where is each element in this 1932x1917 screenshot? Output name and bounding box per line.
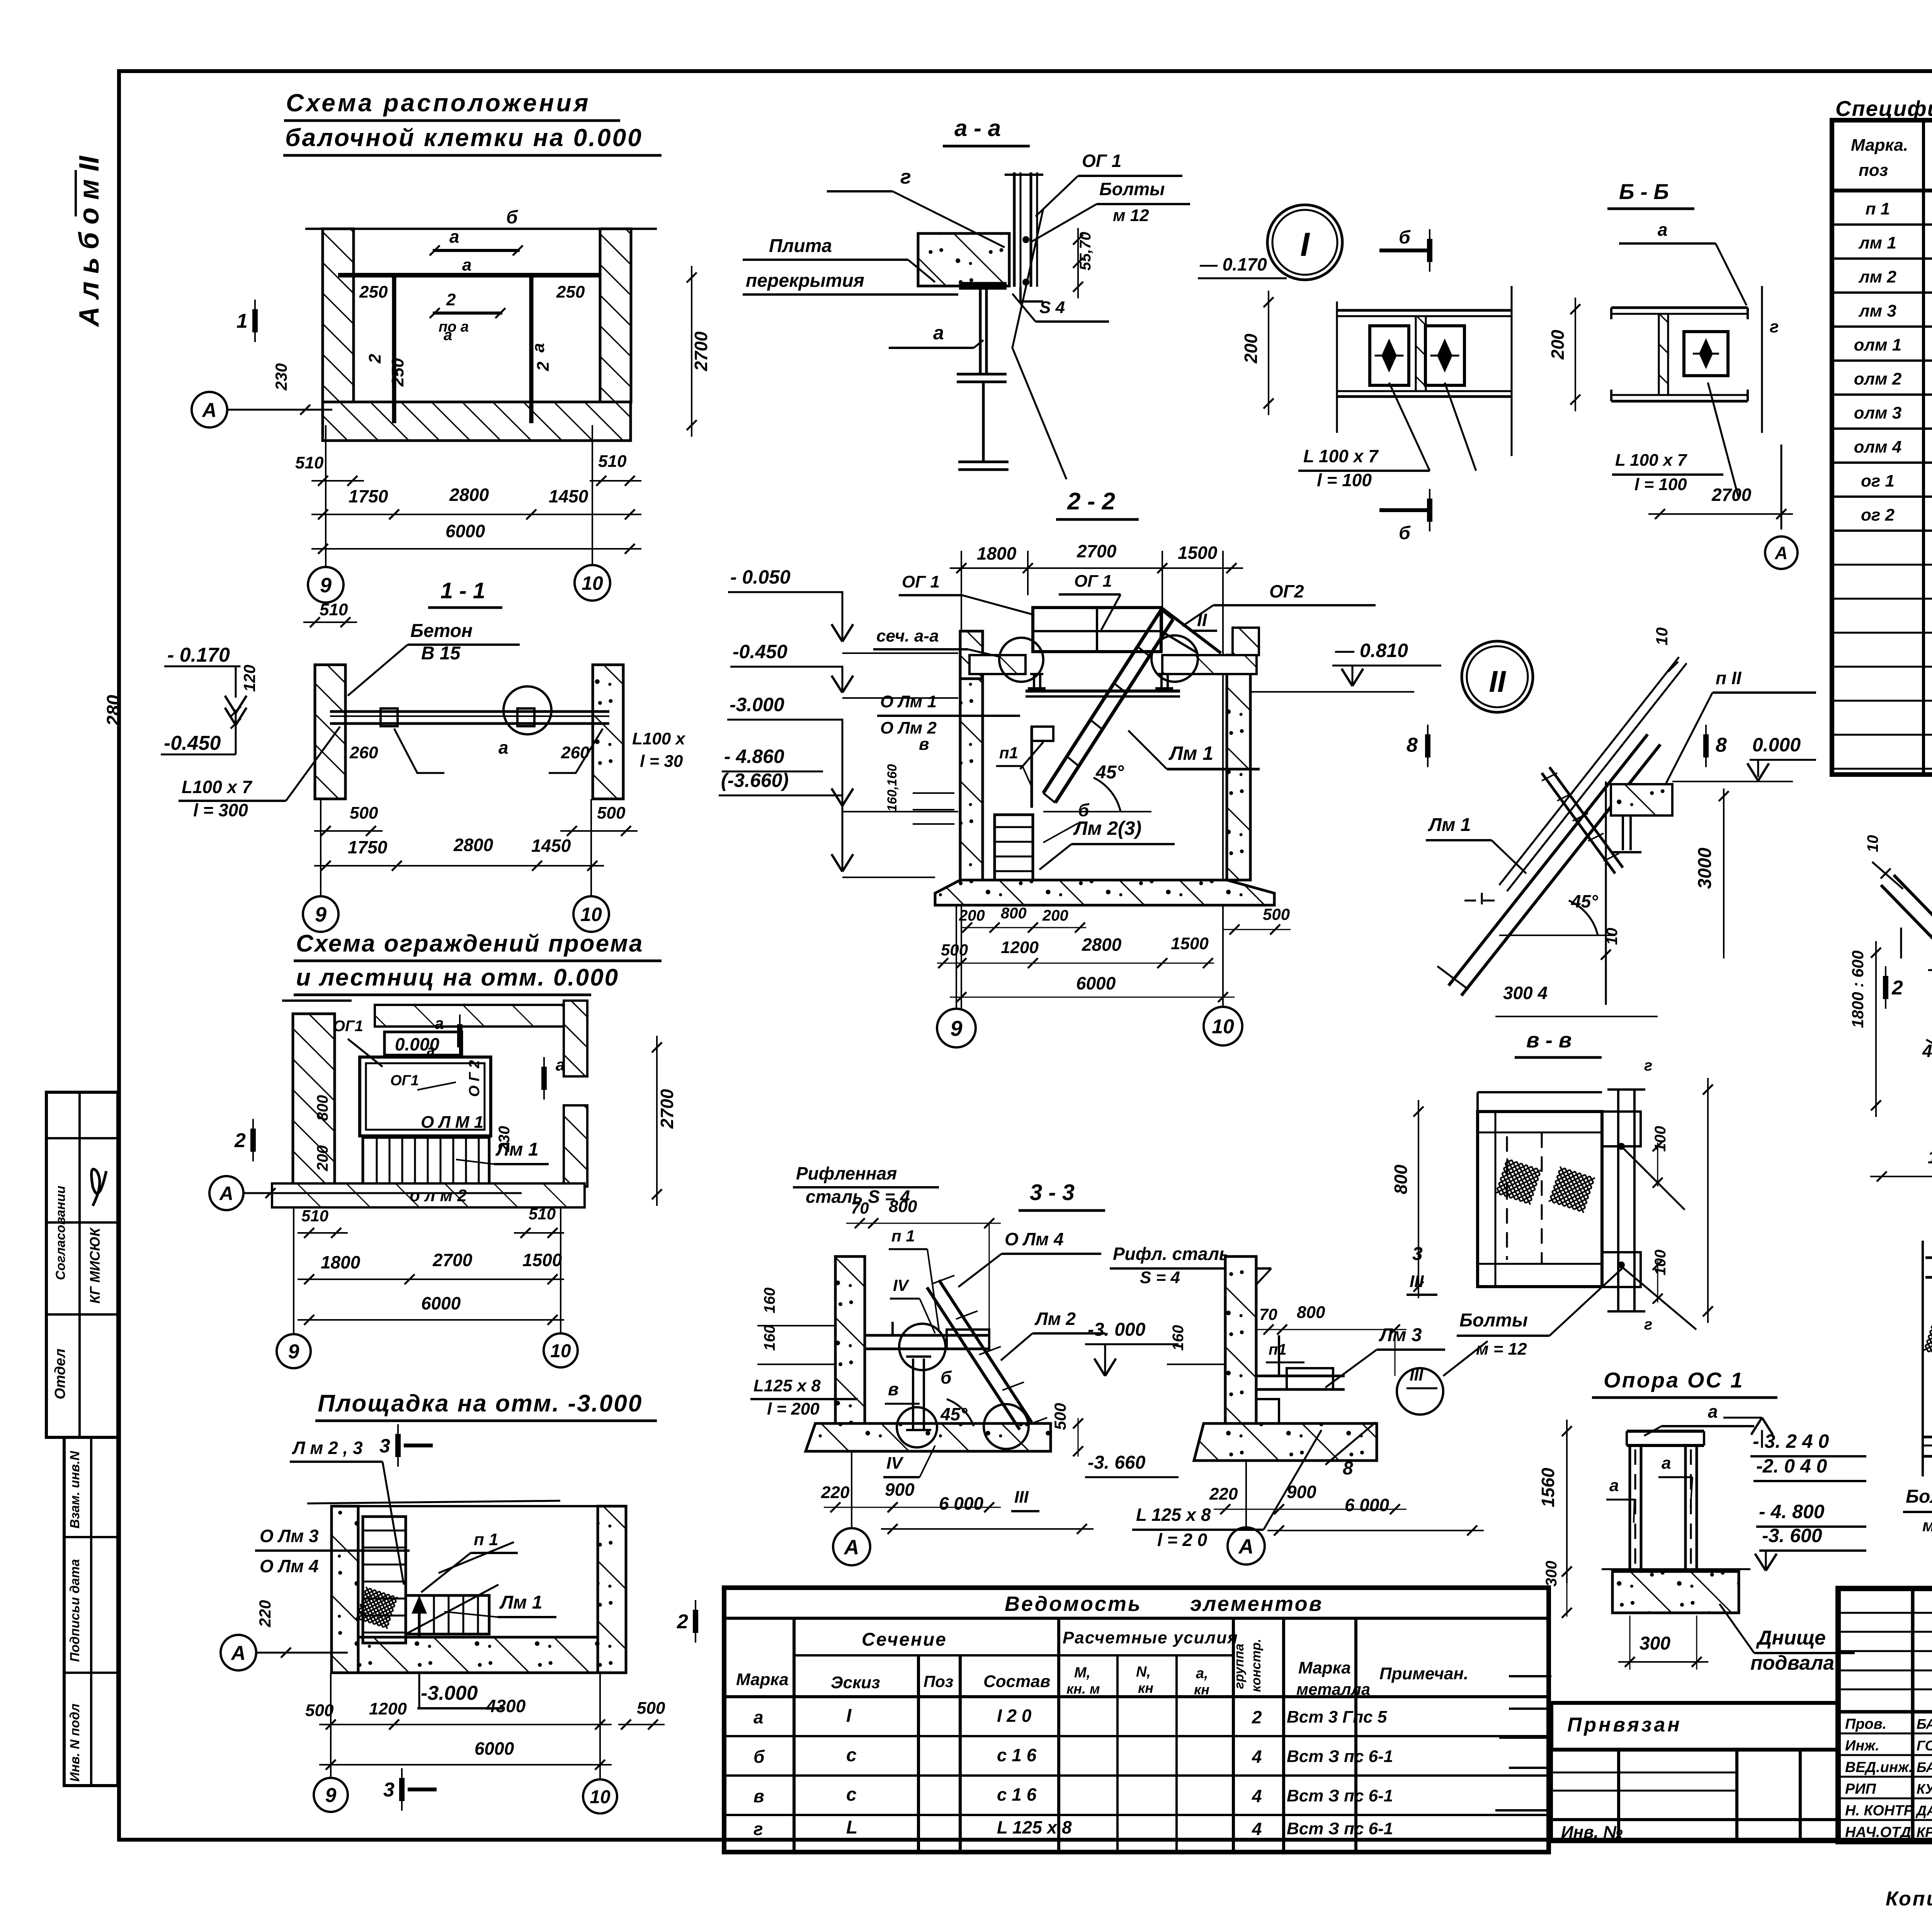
secondary beams 2 [392, 276, 396, 423]
footing 3-3 left [806, 1423, 1051, 1451]
svg-text:- 4. 800: - 4. 800 [1759, 1501, 1825, 1522]
left of privyazan small rows [1509, 1675, 1551, 1677]
svg-text:-3.000: -3.000 [730, 694, 784, 715]
svg-text:510: 510 [529, 1205, 556, 1223]
svg-text:4300: 4300 [486, 1696, 526, 1716]
svg-text:2: 2 [1252, 1707, 1262, 1727]
svg-text:Рифл. сталь: Рифл. сталь [1113, 1244, 1230, 1264]
svg-text:в - в: в - в [1526, 1028, 1571, 1052]
grid circles 2-2 [937, 1009, 976, 1047]
svg-text:1750: 1750 [349, 486, 388, 506]
svg-text:лм 2: лм 2 [1858, 267, 1896, 286]
svg-text:9: 9 [325, 1784, 337, 1807]
ladder at left [363, 1517, 406, 1643]
B-B beam section [1611, 306, 1748, 309]
dims right of railing plan [656, 1036, 658, 1206]
svg-text:2700: 2700 [432, 1250, 473, 1270]
svg-text:Отдел: Отдел [52, 1348, 68, 1399]
svg-text:ОГ 1: ОГ 1 [1074, 572, 1112, 591]
svg-text:1500: 1500 [1171, 934, 1209, 953]
svg-text:а: а [498, 737, 509, 758]
svg-text:олм 2: олм 2 [1854, 369, 1902, 388]
upper post P1 and small platform [1031, 727, 1033, 808]
svg-text:а: а [1658, 220, 1668, 240]
svg-text:Болты: Болты [1459, 1310, 1528, 1331]
svg-text:300 4: 300 4 [1503, 983, 1548, 1003]
svg-text:510: 510 [295, 453, 324, 472]
svg-text:500: 500 [1051, 1403, 1069, 1430]
svg-text:2700: 2700 [1077, 541, 1117, 561]
svg-text:L: L [846, 1817, 857, 1838]
svg-text:а: а [427, 1042, 435, 1059]
svg-text:250: 250 [556, 283, 585, 301]
svg-text:п 1: п 1 [1866, 199, 1890, 218]
svg-text:2: 2 [366, 354, 384, 364]
grid circles bottom platform [314, 1778, 348, 1812]
svg-text:6 000: 6 000 [1345, 1495, 1389, 1515]
svg-text:9: 9 [288, 1341, 299, 1363]
axis A circle [192, 392, 227, 427]
svg-text:500: 500 [350, 804, 378, 822]
svg-text:9: 9 [950, 1016, 962, 1040]
axis A partial [1765, 536, 1798, 569]
dim 200 detail I [1268, 291, 1269, 415]
svg-text:б: б [940, 1367, 952, 1388]
svg-text:п1: п1 [1269, 1341, 1287, 1358]
svg-text:в: в [753, 1786, 764, 1806]
svg-text:1800: 1800 [321, 1252, 361, 1272]
axis circle A 3-3 left [833, 1528, 870, 1565]
svg-text:ог 1: ог 1 [1861, 472, 1895, 490]
svg-text:200: 200 [314, 1145, 331, 1171]
svg-text:10: 10 [1604, 928, 1621, 945]
svg-text:группа: группа [1232, 1644, 1247, 1689]
main beam a [338, 273, 601, 278]
svg-text:- 3. 2 4 0: - 3. 2 4 0 [1753, 1430, 1829, 1452]
beam web lower [982, 382, 985, 462]
svg-text:220: 220 [821, 1483, 850, 1502]
svg-text:4: 4 [1252, 1819, 1262, 1839]
svg-text:3: 3 [379, 1435, 390, 1457]
svg-text:Плита: Плита [769, 236, 832, 256]
detail circles on 2-2 [999, 638, 1043, 682]
svg-text:70: 70 [851, 1199, 869, 1217]
svg-text:Схема ограждений проема: Схема ограждений проема [296, 930, 643, 957]
svg-text:ОГ 1: ОГ 1 [902, 572, 940, 591]
detail circle I ref [503, 686, 551, 734]
svg-text:б: б [753, 1747, 765, 1767]
svg-text:1560: 1560 [1538, 1468, 1558, 1507]
svg-text:а: а [1708, 1401, 1718, 1422]
svg-text:2800: 2800 [449, 485, 489, 505]
svg-text:М,: М, [1074, 1665, 1090, 1681]
platform plan walls [332, 1506, 358, 1673]
svg-text:1450: 1450 [549, 486, 588, 506]
svg-text:- 0.170: - 0.170 [167, 644, 230, 666]
svg-text:45°: 45° [1922, 1041, 1932, 1061]
stairs diagonal Lm1 [1043, 610, 1161, 793]
svg-text:м 12: м 12 [1113, 206, 1149, 225]
svg-text:200: 200 [1548, 330, 1568, 360]
svg-text:280: 280 [104, 695, 124, 726]
svg-text:Вст 3 Гпс 5: Вст 3 Гпс 5 [1287, 1708, 1387, 1726]
center web hatched [1416, 316, 1426, 391]
svg-text:120: 120 [240, 665, 259, 692]
III circle marker [1397, 1368, 1443, 1415]
svg-text:КУЗНЕЦОВ: КУЗНЕЦОВ [1917, 1781, 1932, 1797]
grid circles 9 10 under 1-1 [303, 896, 338, 932]
svg-text:3: 3 [1412, 1244, 1423, 1264]
svg-text:сеч. а-а: сеч. а-а [876, 627, 939, 645]
svg-text:Опора ОС 1: Опора ОС 1 [1604, 1368, 1744, 1392]
svg-text:1500: 1500 [522, 1250, 562, 1270]
svg-text:L125 x 8: L125 x 8 [753, 1376, 821, 1395]
right slab 2-2 [1162, 655, 1257, 674]
svg-text:Расчетные усилия: Расчетные усилия [1063, 1628, 1238, 1647]
left stamp box upper [46, 1092, 118, 1437]
svg-text:45°: 45° [1571, 891, 1598, 911]
svg-text:А: А [219, 1183, 233, 1204]
svg-text:6000: 6000 [446, 521, 485, 541]
svg-text:2800: 2800 [453, 835, 493, 855]
elevation box 0.000 [384, 1032, 462, 1055]
stringer III [1894, 875, 1932, 1071]
svg-text:260: 260 [349, 743, 378, 762]
svg-text:I 2 0: I 2 0 [997, 1706, 1032, 1726]
dims v-v [1418, 1100, 1419, 1298]
right column v-v [1617, 1090, 1619, 1311]
I beam under slab II [1614, 814, 1640, 817]
svg-text:160,160: 160,160 [885, 764, 900, 812]
svg-text:220: 220 [1209, 1485, 1238, 1503]
svg-text:500: 500 [305, 1701, 334, 1720]
svg-text:230: 230 [496, 1126, 513, 1152]
svg-text:1 - 1: 1 - 1 [440, 578, 485, 603]
svg-text:10: 10 [590, 1787, 611, 1807]
svg-text:О Лм 1: О Лм 1 [880, 692, 937, 711]
svg-text:ДАНИЛЕВСКИЙ: ДАНИЛЕВСКИЙ [1915, 1802, 1932, 1818]
svg-text:Марка.: Марка. [1851, 136, 1908, 155]
stair run [406, 1595, 489, 1634]
svg-text:250: 250 [359, 283, 388, 301]
svg-text:l = 100: l = 100 [1317, 470, 1372, 490]
crosshatch patch [356, 1587, 398, 1629]
svg-text:поз: поз [1859, 161, 1888, 180]
svg-text:300: 300 [1639, 1633, 1670, 1654]
svg-text:510: 510 [301, 1207, 328, 1225]
svg-text:Лм 1: Лм 1 [499, 1592, 543, 1613]
title block vertical lines [1911, 1588, 1915, 1842]
svg-text:-3. 660: -3. 660 [1088, 1452, 1146, 1473]
svg-text:N,: N, [1136, 1664, 1151, 1680]
svg-text:2700: 2700 [1711, 485, 1752, 505]
svg-text:б: б [1078, 800, 1090, 820]
svg-text:500: 500 [637, 1699, 665, 1718]
frame 2-2 small [1922, 1241, 1924, 1476]
svg-text:А: А [844, 1536, 859, 1559]
dims opora [1566, 1420, 1568, 1583]
svg-text:Пров.: Пров. [1845, 1716, 1886, 1732]
column posts [1627, 1430, 1704, 1433]
platform bracket [865, 1334, 989, 1337]
stringer 3-3 left [927, 1287, 1020, 1430]
top dims 2-2 [950, 567, 1243, 569]
svg-text:В 15: В 15 [421, 643, 461, 664]
spec table grid [1832, 120, 1932, 775]
svg-text:констр.: констр. [1249, 1639, 1264, 1692]
svg-text:6000: 6000 [474, 1738, 514, 1759]
svg-text:300: 300 [1543, 1561, 1560, 1587]
svg-text:кн: кн [1138, 1680, 1153, 1696]
svg-text:а: а [529, 343, 548, 352]
svg-text:2800: 2800 [1082, 935, 1122, 955]
svg-text:г: г [1644, 1316, 1652, 1333]
svg-text:Болты: Болты [1099, 179, 1165, 199]
svg-text:250: 250 [388, 358, 407, 387]
gusset B-B [1684, 332, 1728, 376]
bottom beam 2-2 small [1923, 1436, 1932, 1439]
svg-text:9: 9 [320, 574, 332, 597]
svg-text:олм 4: олм 4 [1854, 438, 1902, 456]
svg-text:10: 10 [580, 904, 602, 925]
svg-text:Ведомость: Ведомость [1005, 1592, 1142, 1616]
svg-text:-3. 600: -3. 600 [1762, 1525, 1822, 1546]
svg-text:РИП: РИП [1845, 1781, 1876, 1797]
upper rail parallel [1499, 657, 1679, 885]
svg-text:О Лм 4: О Лм 4 [1005, 1229, 1064, 1249]
svg-text:лм 1: лм 1 [1858, 233, 1896, 252]
svg-text:с: с [846, 1784, 857, 1805]
svg-text:L 125 x 8: L 125 x 8 [1136, 1505, 1211, 1525]
svg-text:Марка: Марка [1298, 1658, 1351, 1677]
svg-text:о л м 2: о л м 2 [410, 1186, 467, 1205]
dims below 2-2 [961, 927, 1086, 928]
svg-text:0.000: 0.000 [1752, 734, 1801, 756]
svg-text:Болты: Болты [1906, 1486, 1932, 1507]
svg-text:45°: 45° [1095, 762, 1124, 783]
svg-text:II: II [1489, 664, 1506, 698]
left slab 2-2 [969, 655, 1026, 674]
bolts dots [1022, 236, 1029, 243]
railing plan walls [293, 1014, 335, 1187]
svg-text:I: I [1300, 226, 1310, 263]
svg-text:8: 8 [1343, 1458, 1353, 1479]
svg-text:10: 10 [582, 572, 603, 594]
svg-text:I: I [846, 1706, 852, 1726]
vertical dim 1800:600 [1900, 928, 1902, 958]
svg-text:230: 230 [272, 363, 290, 391]
crosshatch patches v-v [1495, 1158, 1542, 1205]
svg-text:200: 200 [1042, 907, 1068, 924]
railing diagonal OG2 [1161, 608, 1221, 653]
svg-text:10: 10 [550, 1341, 571, 1361]
railing rectangle OLM1 [360, 1057, 491, 1136]
svg-text:1200: 1200 [1001, 938, 1039, 957]
bolt plates [381, 708, 398, 726]
svg-text:Лм 2(3): Лм 2(3) [1073, 817, 1141, 839]
svg-text:160: 160 [1170, 1325, 1187, 1351]
svg-text:ОГ2: ОГ2 [1269, 581, 1304, 601]
svg-text:Б - Б: Б - Б [1619, 179, 1669, 204]
svg-text:— 0.170: — 0.170 [1199, 254, 1267, 274]
dim 510 over wall [303, 621, 357, 623]
railing frame on top [1033, 608, 1161, 652]
platform beam 2-2 [1026, 690, 1180, 693]
post OG1 [1013, 172, 1016, 287]
svg-text:160: 160 [761, 1325, 778, 1351]
svg-text:55,70: 55,70 [1077, 232, 1094, 271]
svg-text:ГОЛОВАНОВА: ГОЛОВАНОВА [1917, 1738, 1932, 1754]
svg-text:8: 8 [1406, 734, 1418, 756]
svg-text:а: а [1609, 1476, 1619, 1495]
section mark 1 [254, 300, 256, 342]
svg-text:8: 8 [1716, 734, 1727, 756]
svg-text:БАБИКОВА: БАБИКОВА [1917, 1759, 1932, 1775]
svg-text:100: 100 [1652, 1126, 1669, 1152]
svg-text:200: 200 [1241, 334, 1261, 364]
svg-text:800: 800 [1001, 905, 1027, 922]
svg-text:а: а [1662, 1454, 1671, 1473]
svg-text:500: 500 [941, 941, 968, 959]
svg-text:l = 300: l = 300 [193, 800, 248, 820]
svg-text:а: а [933, 322, 944, 344]
svg-text:500: 500 [1263, 905, 1290, 923]
slab II [1611, 784, 1672, 815]
detail circles 3-3 [899, 1324, 946, 1370]
floor beam [330, 710, 609, 713]
svg-text:6000: 6000 [421, 1293, 461, 1313]
svg-text:Примечан.: Примечан. [1379, 1664, 1468, 1683]
svg-text:Вст З пс 6-1: Вст З пс 6-1 [1287, 1747, 1393, 1766]
svg-text:S 4: S 4 [1039, 298, 1065, 317]
svg-text:1750: 1750 [348, 837, 388, 857]
svg-text:Копировал: Копировал [1886, 1888, 1932, 1910]
dashes [1464, 893, 1499, 908]
svg-text:L100 x: L100 x [632, 729, 686, 748]
svg-text:ВЕД.инж.: ВЕД.инж. [1845, 1759, 1913, 1776]
svg-text:Прнвязан: Прнвязан [1567, 1714, 1682, 1736]
svg-text:кн: кн [1194, 1682, 1209, 1697]
vedomost columns [793, 1618, 796, 1852]
svg-text:9: 9 [315, 903, 327, 926]
svg-text:l = 100: l = 100 [1634, 475, 1687, 494]
svg-text:2 - 2: 2 - 2 [1067, 488, 1115, 515]
svg-text:б: б [1399, 523, 1411, 543]
svg-text:1800: 1800 [977, 543, 1017, 564]
svg-text:l = 200: l = 200 [767, 1399, 820, 1418]
svg-text:6000: 6000 [1076, 973, 1116, 993]
section marker b bottom [1379, 508, 1430, 512]
bottom wall band [272, 1183, 585, 1207]
svg-text:п1: п1 [999, 744, 1018, 762]
svg-text:800: 800 [314, 1095, 331, 1121]
svg-text:4: 4 [1252, 1786, 1262, 1806]
up arrow [418, 1600, 421, 1637]
svg-text:l = 2 0: l = 2 0 [1157, 1530, 1207, 1550]
stair treads [363, 1137, 489, 1187]
svg-text:О Л М 1: О Л М 1 [421, 1113, 483, 1132]
footing 2-2 [935, 880, 1274, 905]
plan walls [305, 228, 657, 230]
svg-text:Инв. N подл: Инв. N подл [68, 1704, 82, 1782]
strut [912, 1359, 914, 1430]
svg-text:лм 3: лм 3 [1858, 301, 1896, 320]
svg-text:III: III [1014, 1488, 1029, 1507]
svg-text:а: а [449, 226, 459, 247]
svg-text:м = 12: м = 12 [1476, 1340, 1527, 1359]
svg-text:БАБИКОВА: БАБИКОВА [1917, 1716, 1932, 1732]
svg-text:ог 2: ог 2 [1861, 506, 1895, 524]
svg-text:А: А [1238, 1535, 1254, 1558]
svg-text:а: а [556, 1056, 565, 1074]
svg-text:с: с [846, 1745, 857, 1765]
svg-text:220: 220 [256, 1600, 274, 1628]
svg-text:l = 30: l = 30 [640, 752, 683, 771]
svg-text:Вст З пс 6-1: Вст З пс 6-1 [1287, 1786, 1393, 1805]
I-beam under slab [959, 282, 1007, 285]
svg-text:Сечение: Сечение [862, 1629, 947, 1650]
svg-text:III: III [1410, 1366, 1423, 1384]
svg-text:Рифленная: Рифленная [796, 1163, 897, 1183]
gusset squares with bolts [1370, 326, 1409, 385]
2 markers III [1885, 966, 1886, 1009]
svg-text:(-3.660): (-3.660) [721, 770, 789, 791]
svg-text:НАЧ.ОТД: НАЧ.ОТД [1845, 1824, 1911, 1840]
svg-text:III: III [1410, 1272, 1424, 1291]
svg-text:Лм 2: Лм 2 [1034, 1309, 1076, 1329]
svg-text:IV: IV [886, 1454, 904, 1473]
crosshatches 2-2 small [1923, 1317, 1932, 1361]
svg-text:500: 500 [597, 804, 626, 822]
detail I beams plan [1337, 309, 1512, 312]
svg-text:1500: 1500 [1178, 543, 1218, 563]
svg-text:2: 2 [1891, 977, 1903, 999]
svg-text:а: а [462, 255, 471, 274]
left wall 2-2 [960, 631, 983, 679]
svg-text:-3. 000: -3. 000 [1088, 1319, 1146, 1340]
svg-text:2700: 2700 [657, 1089, 677, 1129]
svg-text:Лм 3: Лм 3 [1379, 1325, 1422, 1345]
svg-text:г: г [753, 1819, 763, 1839]
svg-text:б: б [506, 207, 518, 228]
svg-text:510: 510 [598, 452, 627, 471]
svg-text:L100 x 7: L100 x 7 [182, 777, 253, 797]
svg-text:А: А [230, 1642, 246, 1665]
svg-text:Днище: Днище [1756, 1627, 1826, 1649]
svg-text:Инв. №: Инв. № [1561, 1823, 1623, 1842]
svg-text:2: 2 [446, 290, 456, 309]
svg-text:Площадка на отм. -3.000: Площадка на отм. -3.000 [318, 1390, 643, 1417]
svg-text:КГ МИСЮК: КГ МИСЮК [87, 1227, 103, 1304]
svg-text:г: г [1770, 317, 1779, 336]
svg-text:10: 10 [1864, 835, 1881, 853]
vertical dim 2700 [691, 266, 692, 437]
svg-text:4: 4 [1252, 1747, 1262, 1767]
svg-text:а,: а, [1196, 1665, 1208, 1682]
grid circles 9 and 10 [308, 567, 344, 603]
svg-text:1200: 1200 [369, 1699, 407, 1718]
svg-text:олм 3: олм 3 [1854, 403, 1902, 422]
svg-text:с 1 6: с 1 6 [997, 1784, 1037, 1805]
svg-text:а: а [444, 327, 452, 344]
cross bracket [1542, 773, 1615, 873]
svg-text:и лестниц на отм. 0.000: и лестниц на отм. 0.000 [296, 964, 619, 991]
svg-text:Н. КОНТР.: Н. КОНТР. [1845, 1803, 1916, 1819]
svg-text:— 0.810: — 0.810 [1335, 640, 1408, 661]
svg-text:Вст З пс 6-1: Вст З пс 6-1 [1287, 1819, 1393, 1838]
svg-text:балочной клетки на 0.000: балочной клетки на 0.000 [285, 124, 643, 152]
left stamp box lower [64, 1437, 118, 1786]
